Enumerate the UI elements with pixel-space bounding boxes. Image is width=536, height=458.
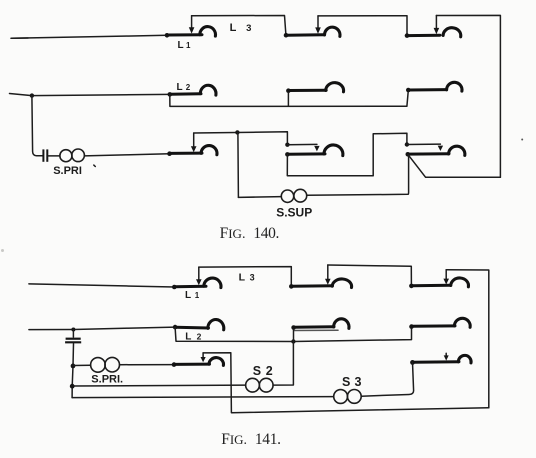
svg-text:S3: S3 xyxy=(342,375,362,389)
svg-text:S.PRI: S.PRI xyxy=(53,165,82,177)
svg-text:L1: L1 xyxy=(185,290,200,301)
svg-text:L2: L2 xyxy=(177,82,191,93)
svg-text:S.SUP: S.SUP xyxy=(276,206,312,220)
svg-text:FIG. 140.: FIG. 140. xyxy=(220,225,279,242)
svg-text:FIG. 141.: FIG. 141. xyxy=(221,431,280,448)
svg-text:L3: L3 xyxy=(239,271,255,283)
svg-text:L3: L3 xyxy=(230,22,252,34)
svg-text:S2: S2 xyxy=(253,364,273,378)
svg-text:S.PRI.: S.PRI. xyxy=(91,374,123,386)
svg-text:L1: L1 xyxy=(178,40,192,51)
